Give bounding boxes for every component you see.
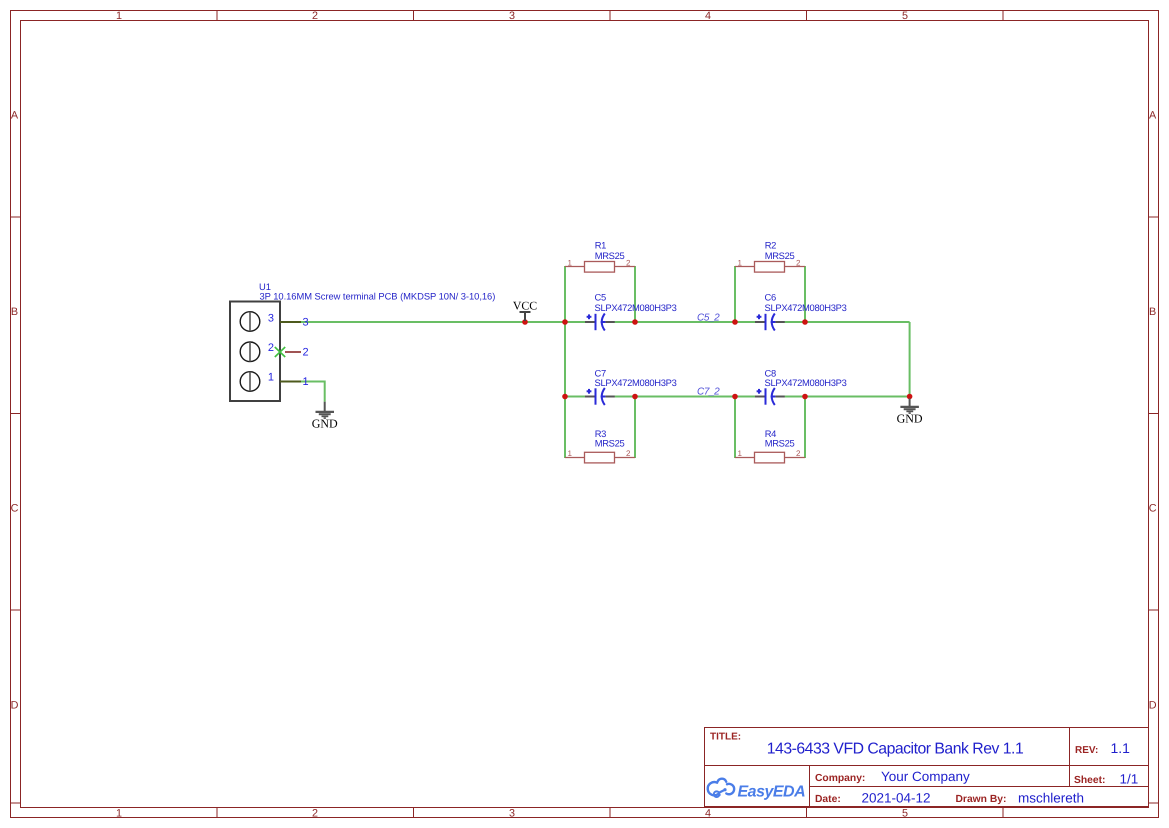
svg-text:1.1: 1.1 <box>1111 740 1131 756</box>
svg-text:Sheet:: Sheet: <box>1074 775 1105 786</box>
svg-text:2: 2 <box>312 10 318 22</box>
svg-text:Date:: Date: <box>815 794 841 805</box>
svg-text:D: D <box>1149 700 1157 712</box>
svg-text:2: 2 <box>796 449 801 458</box>
svg-text:Drawn By:: Drawn By: <box>956 794 1007 805</box>
svg-text:3P 10.16MM Screw terminal PCB: 3P 10.16MM Screw terminal PCB (MKDSP 10N… <box>260 291 496 302</box>
svg-text:3: 3 <box>302 317 308 329</box>
svg-text:1: 1 <box>302 376 308 388</box>
svg-text:4: 4 <box>705 807 711 819</box>
svg-text:143-6433 VFD Capacitor Bank Re: 143-6433 VFD Capacitor Bank Rev 1.1 <box>767 740 1024 757</box>
svg-text:SLPX472M080H3P3: SLPX472M080H3P3 <box>765 377 847 388</box>
svg-text:B: B <box>1149 306 1156 318</box>
svg-text:2: 2 <box>302 347 308 359</box>
svg-text:1: 1 <box>116 10 122 22</box>
svg-text:2: 2 <box>626 449 631 458</box>
svg-text:GND: GND <box>312 417 338 431</box>
svg-text:EasyEDA: EasyEDA <box>738 784 806 801</box>
svg-text:MRS25: MRS25 <box>595 250 625 261</box>
svg-text:3: 3 <box>509 807 515 819</box>
svg-text:Company:: Company: <box>815 773 865 784</box>
svg-text:SLPX472M080H3P3: SLPX472M080H3P3 <box>595 377 677 388</box>
svg-text:MRS25: MRS25 <box>765 438 795 449</box>
svg-text:D: D <box>11 700 19 712</box>
svg-text:1: 1 <box>738 259 743 268</box>
svg-text:MRS25: MRS25 <box>765 250 795 261</box>
svg-text:C5_2: C5_2 <box>697 312 720 323</box>
svg-text:4: 4 <box>705 10 711 22</box>
svg-text:C7_2: C7_2 <box>697 387 720 398</box>
svg-text:C: C <box>1149 503 1157 515</box>
svg-text:GND: GND <box>897 412 923 426</box>
svg-text:1/1: 1/1 <box>1120 772 1139 787</box>
svg-text:TITLE:: TITLE: <box>710 732 741 743</box>
svg-text:5: 5 <box>902 10 908 22</box>
svg-text:2: 2 <box>268 342 274 354</box>
svg-text:1: 1 <box>568 449 573 458</box>
svg-text:2021-04-12: 2021-04-12 <box>862 791 931 806</box>
svg-text:A: A <box>11 110 19 122</box>
svg-text:3: 3 <box>509 10 515 22</box>
svg-text:2: 2 <box>626 259 631 268</box>
svg-text:2: 2 <box>312 807 318 819</box>
svg-text:REV:: REV: <box>1075 745 1098 756</box>
svg-text:1: 1 <box>738 449 743 458</box>
svg-text:1: 1 <box>116 807 122 819</box>
svg-text:5: 5 <box>902 807 908 819</box>
svg-text:VCC: VCC <box>513 299 537 313</box>
svg-text:MRS25: MRS25 <box>595 438 625 449</box>
svg-text:SLPX472M080H3P3: SLPX472M080H3P3 <box>765 302 847 313</box>
svg-text:2: 2 <box>796 259 801 268</box>
svg-text:Your Company: Your Company <box>881 769 970 784</box>
svg-text:SLPX472M080H3P3: SLPX472M080H3P3 <box>595 302 677 313</box>
svg-text:1: 1 <box>568 259 573 268</box>
svg-text:3: 3 <box>268 312 274 324</box>
svg-text:1: 1 <box>268 372 274 384</box>
svg-text:mschlereth: mschlereth <box>1018 791 1084 806</box>
svg-text:B: B <box>11 306 18 318</box>
svg-text:C: C <box>11 503 19 515</box>
svg-text:A: A <box>1149 110 1157 122</box>
